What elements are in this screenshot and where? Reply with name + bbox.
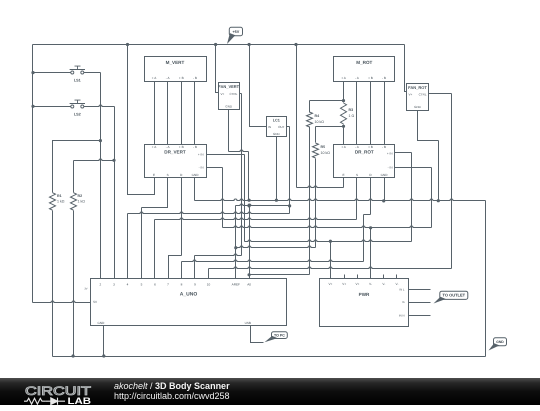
svg-text:V-: V- (396, 282, 399, 286)
wire M_ROT +B to DR_ROT (370, 82, 372, 145)
wire LC1 GND to GND bus (276, 137, 278, 201)
wire DR_ROT S lane (356, 178, 358, 220)
svg-text:IN N: IN N (399, 313, 405, 317)
junction top rail / FAN_VERT V+ drop (214, 43, 217, 46)
wire DR_VERT -IN lane (222, 168, 224, 228)
wire V- drop to PWR (370, 228, 372, 279)
driver DR_VERT (145, 145, 207, 178)
svg-text:4: 4 (127, 282, 129, 286)
wire GND bus drop right (485, 201, 487, 357)
junction R3 top / R4 (342, 99, 345, 102)
wire pin9 bus to FAN_VERT CTRL (195, 254, 242, 255)
svg-text:+ IN: + IN (387, 152, 393, 156)
wire DR_ROT +IN lane (411, 153, 413, 242)
wire DR_ROT -IN right (395, 167, 432, 169)
CircuitLab logo (24, 378, 124, 411)
svg-text:V-: V- (369, 282, 372, 286)
junction R2 / pin3 lane (112, 159, 115, 162)
wire M_VERT -B to DR_VERT (194, 82, 196, 145)
flag +5V (229, 27, 242, 35)
junction left rail / LS1 (31, 71, 34, 74)
svg-text:GND: GND (225, 104, 233, 108)
junction FAN_VERT GND / GND bus (248, 199, 251, 202)
driver DR_ROT (334, 145, 395, 178)
svg-text:GND: GND (98, 321, 106, 325)
wire FAN_VERT GND down (228, 110, 230, 152)
svg-text:1 Ω: 1 Ω (349, 114, 355, 118)
wire to A_UNO pin 6 (154, 220, 156, 279)
svg-text:- B: - B (382, 76, 386, 80)
svg-text:GND: GND (192, 173, 200, 177)
wire E rail to DR_ROT E (297, 186, 344, 188)
svg-text:A_UNO: A_UNO (180, 291, 198, 297)
wire +5V to LC1 IN (250, 45, 267, 127)
svg-text:LS2: LS2 (74, 113, 81, 117)
resistor zigzag (24, 398, 45, 404)
svg-text:V-: V- (382, 282, 385, 286)
wire left rail to LS1 (33, 72, 71, 74)
wire pin10 bus to FAN_ROT CTRL (209, 267, 452, 269)
flag TO PC (272, 332, 288, 339)
resistor R1 (50, 193, 56, 211)
svg-text:E: E (153, 173, 155, 177)
junction left rail / LS2 (31, 105, 34, 108)
wire R3 bottom to DR_ROT +A (343, 125, 345, 145)
wire R5 bottom to AREF lane (236, 246, 316, 248)
wire DR_VERT D lane (181, 178, 183, 256)
svg-text:5V: 5V (93, 300, 98, 304)
junction A_UNO GND / ground rail (102, 354, 105, 357)
svg-text:9: 9 (194, 282, 196, 286)
fan FAN_ROT (407, 84, 429, 111)
svg-text:+ B: + B (179, 145, 184, 149)
svg-text:V+: V+ (355, 282, 359, 286)
junction R5 bus / AREF lane (234, 246, 237, 249)
svg-text:+ B: + B (368, 76, 373, 80)
wire R5 bottom lane (315, 159, 317, 248)
wire DR_ROT S to pin6 bus (155, 218, 357, 219)
svg-text:R4: R4 (315, 114, 320, 118)
wire FAN_ROT CTRL stub (429, 93, 452, 95)
svg-text:+ A: + A (152, 145, 157, 149)
svg-text:R3: R3 (349, 108, 354, 112)
svg-text:+ A: + A (152, 76, 157, 80)
svg-text:1 kΩ: 1 kΩ (57, 200, 65, 204)
svg-text:3: 3 (113, 282, 115, 286)
svg-text:- B: - B (193, 145, 197, 149)
svg-text:M_ROT: M_ROT (356, 60, 372, 65)
svg-text:- B: - B (193, 76, 197, 80)
wire FAN_VERT CTRL stub (240, 93, 242, 95)
wire FAN_ROT CTRL to pin10 bus (451, 94, 453, 269)
wire M_VERT +B to DR_VERT (181, 82, 183, 145)
wire A_UNO pin 9 lane (194, 256, 196, 279)
pushbutton LS1 (71, 71, 74, 74)
wire R4 bottom to A0 lane (250, 274, 310, 276)
svg-text:2: 2 (100, 282, 102, 286)
wire AREF lane (235, 206, 237, 279)
pin PWR G (409, 302, 431, 304)
wire D to A_UNO pin 7 (169, 256, 182, 279)
svg-text:10 kΩ: 10 kΩ (321, 151, 331, 155)
pin stub PWR V-2 (383, 275, 385, 279)
svg-text:DR_VERT: DR_VERT (164, 150, 186, 155)
svg-text:6: 6 (154, 282, 156, 286)
pin stub PWR V+2 (344, 275, 346, 279)
wire +IN bus to PWR V+ (245, 240, 412, 242)
wire LC1 OUT to pin4 bus (128, 212, 290, 213)
wire LS1 to pin2 lane (84, 72, 101, 74)
wire R1 top to pin2 lane (53, 141, 101, 193)
svg-text:OUT: OUT (278, 125, 285, 129)
flag TO OUTLET (440, 291, 468, 299)
wire R5 top lead (315, 127, 317, 143)
wire FAN_VERT CTRL to pin9 bus (241, 94, 243, 256)
wire R5 top to R3 bottom (316, 126, 344, 128)
svg-text:D: D (369, 173, 372, 177)
wire FAN_ROT GND to GND bus (438, 141, 440, 201)
wire R2 top to pin3 lane (74, 159, 115, 161)
wire LC1 OUT to AREF lane (236, 204, 290, 206)
svg-text:LS1: LS1 (74, 79, 81, 83)
wire R4 bottom lane (309, 127, 311, 275)
svg-text:- A: - A (355, 145, 360, 149)
wire R2 bottom to ground rail (73, 211, 75, 357)
wire LS2 to A_UNO pin 3 (114, 107, 116, 279)
wire GND bus (195, 199, 486, 201)
wire DR_ROT GND stub (384, 178, 386, 201)
wire DR_VERT -IN right (207, 167, 223, 169)
wire M_ROT -A to DR_ROT (356, 82, 358, 145)
svg-text:7: 7 (167, 282, 169, 286)
wire M_VERT -A to DR_VERT (167, 82, 169, 145)
motor M_ROT (334, 57, 395, 82)
wire pin8 bus to DR_ROT D (182, 260, 364, 262)
fan FAN_VERT (219, 83, 240, 110)
wire A_UNO USB to PC (251, 326, 264, 343)
sensor LC1 (267, 117, 287, 137)
power supply PWR (320, 279, 409, 327)
junction R4 / A0 lane (248, 273, 251, 276)
diode (45, 398, 65, 405)
svg-text:V+: V+ (221, 92, 225, 96)
junction R3 bottom / R5 (342, 125, 345, 128)
wire A_UNO pin 10 lane (208, 269, 210, 279)
svg-text:- B: - B (382, 145, 386, 149)
junction +IN bus / V+ drop (329, 240, 332, 243)
wire V+ drop to PWR (330, 242, 332, 279)
wire +5V top rail (33, 44, 405, 46)
svg-text:FAN_VERT: FAN_VERT (218, 84, 239, 89)
svg-text:10: 10 (207, 282, 211, 286)
wire DR_ROT +IN right (395, 152, 412, 154)
wire DR_VERT +IN lane (244, 155, 246, 242)
svg-text:- IN: - IN (199, 166, 204, 170)
resistor R5 (313, 143, 319, 158)
svg-text:R1: R1 (57, 194, 62, 198)
svg-text:V+: V+ (342, 282, 346, 286)
svg-text:CTRL: CTRL (419, 92, 427, 96)
resistor R4 (307, 112, 313, 127)
svg-text:+5V: +5V (232, 30, 239, 34)
wire FAN_ROT GND jog (418, 111, 439, 141)
wire FAN_VERT GND to GND bus (248, 152, 250, 201)
junction LC1 OUT / AREF-A0 feed (288, 204, 291, 207)
junction -IN bus / V- drop (369, 226, 372, 229)
wire -IN bus to PWR V- (223, 226, 432, 228)
wire D jog lane (363, 215, 365, 262)
svg-text:E: E (342, 173, 344, 177)
svg-text:G: G (402, 300, 404, 304)
arduino A_UNO (91, 279, 287, 326)
wire DR_VERT +IN right (207, 154, 245, 156)
junction top rail / LC1 IN drop (248, 43, 251, 46)
wire +5V to DR_VERT E (128, 45, 155, 195)
wire S to A_UNO pin 5 (141, 208, 143, 279)
wire R1 bottom to ground rail (52, 211, 54, 357)
wire ground rail bottom (53, 356, 486, 358)
junction A0 lane (248, 204, 251, 207)
wire A0 lane (249, 206, 251, 279)
resistor R2 (71, 193, 77, 211)
wire DR_VERT GND stub (194, 178, 196, 201)
wire D jog (364, 214, 371, 216)
wire to A_UNO 5V pin (33, 301, 91, 303)
junction top rail / DR_ROT E drop (294, 43, 297, 46)
svg-text:FAN_ROT: FAN_ROT (408, 85, 427, 90)
junction FAN_ROT GND / GND bus (437, 199, 440, 202)
wire DR_ROT D lane (370, 178, 372, 215)
svg-text:GND: GND (381, 173, 389, 177)
junction top rail / DR_VERT E drop (126, 43, 129, 46)
wire A_UNO pin 8 lane (181, 262, 183, 279)
pin stub PWR V-3 (396, 275, 398, 279)
svg-text:IN L: IN L (399, 287, 405, 291)
wire +5V to FAN_ROT V+ (405, 45, 407, 92)
svg-text:TO OUTLET: TO OUTLET (443, 293, 466, 298)
svg-text:+ IN: + IN (198, 152, 204, 156)
wire R4 top to R3 top (310, 100, 344, 102)
svg-text:M_VERT: M_VERT (166, 60, 185, 65)
svg-text:+ B: + B (179, 76, 184, 80)
svg-text:3V: 3V (84, 288, 87, 291)
pin stub PWR V+3 (357, 275, 359, 279)
svg-text:R2: R2 (78, 194, 83, 198)
wire M_ROT +A to R3 (343, 82, 345, 103)
svg-text:+ A: + A (341, 145, 346, 149)
motor M_VERT (145, 57, 207, 82)
junction R1 / pin2 lane (99, 139, 102, 142)
svg-text:- A: - A (166, 76, 171, 80)
flag GND (494, 338, 507, 346)
wire LS2 to pin3 lane (84, 105, 115, 107)
pin PWR IN L (409, 289, 431, 291)
svg-text:1 kΩ: 1 kΩ (78, 200, 86, 204)
svg-text:IN: IN (268, 125, 271, 129)
wire LS1 to A_UNO pin 2 (100, 73, 102, 279)
pushbutton LS2 (71, 105, 74, 108)
wire R2 top (73, 161, 75, 193)
svg-text:R5: R5 (321, 145, 326, 149)
svg-text:- A: - A (166, 145, 171, 149)
pin PWR IN N (409, 315, 431, 317)
svg-text:GND: GND (273, 132, 281, 136)
wire R4 top lead (309, 101, 311, 113)
junction DR_ROT GND / GND bus (382, 199, 385, 202)
wire DR_ROT -IN lane (431, 168, 433, 228)
svg-text:D: D (180, 173, 183, 177)
svg-text:10 kΩ: 10 kΩ (315, 120, 325, 124)
wire LC1 OUT stub (287, 126, 290, 128)
svg-text:A0: A0 (247, 282, 251, 286)
svg-text:8: 8 (181, 282, 183, 286)
svg-text:GND: GND (496, 340, 504, 344)
svg-text:+ B: + B (368, 145, 373, 149)
svg-text:S: S (167, 173, 169, 177)
wire to A_UNO pin 4 (127, 214, 129, 279)
svg-text:AREF: AREF (232, 282, 240, 286)
svg-text:TO PC: TO PC (274, 334, 285, 338)
svg-text:USB: USB (245, 321, 251, 325)
svg-text:PWR: PWR (359, 292, 370, 297)
resistor R3 (341, 103, 347, 124)
svg-text:GND: GND (414, 105, 422, 109)
svg-text:5: 5 (141, 282, 143, 286)
svg-text:LC1: LC1 (273, 118, 280, 122)
svg-text:V+: V+ (328, 282, 332, 286)
svg-text:CTRL: CTRL (229, 92, 237, 96)
wire M_ROT -B to DR_ROT (384, 82, 386, 145)
wire FAN_VERT GND jog (229, 150, 249, 152)
wire M_VERT +A to DR_VERT (154, 82, 156, 145)
wire A_UNO GND to ground rail (103, 326, 105, 357)
svg-text:DR_ROT: DR_ROT (355, 150, 374, 155)
wire +5V to FAN_VERT V+ (216, 45, 219, 93)
wire LC1 OUT lane (289, 127, 291, 214)
wire stub DR_ROT E (343, 178, 345, 188)
wire +5V left rail (32, 45, 34, 303)
svg-text:- IN: - IN (388, 166, 393, 170)
svg-text:- A: - A (355, 76, 360, 80)
wire left rail to LS2 (33, 106, 71, 108)
svg-text:S: S (356, 173, 358, 177)
junction LC1 GND / GND bus (275, 199, 278, 202)
svg-text:+ A: + A (341, 76, 346, 80)
wire +5V drop to DR_ROT E rail (296, 45, 298, 188)
junction R2 / ground rail (72, 354, 75, 357)
wire DR_VERT S jog (142, 178, 168, 208)
svg-text:V+: V+ (409, 92, 413, 96)
